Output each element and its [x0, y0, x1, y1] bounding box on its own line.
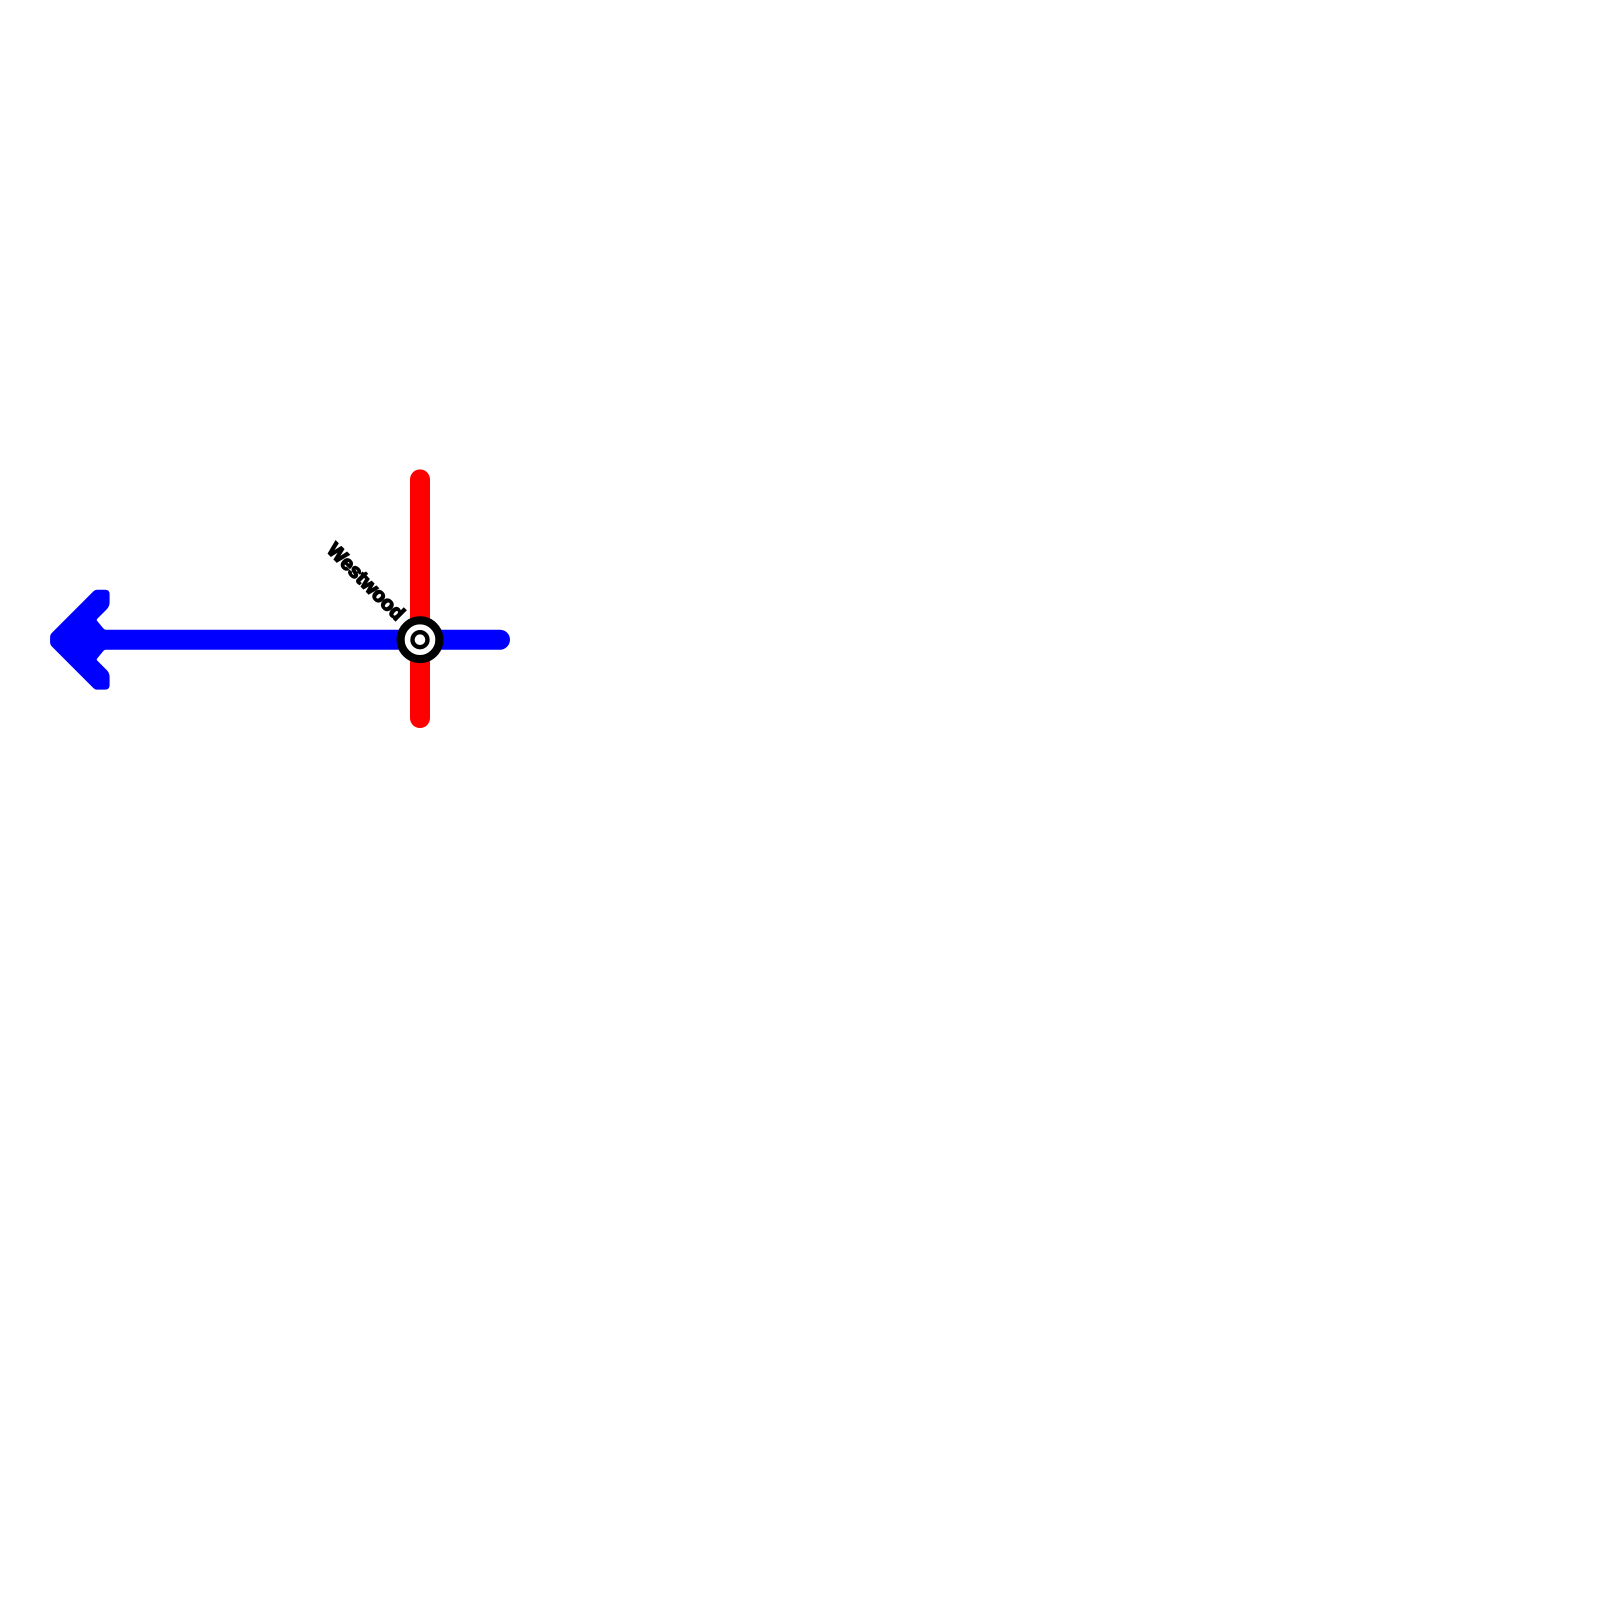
blue line (horizontal route shaft with west arrowhead) — [50, 590, 510, 690]
red line (vertical route) — [410, 479, 430, 718]
station Westwood interchange marker — [401, 620, 440, 659]
